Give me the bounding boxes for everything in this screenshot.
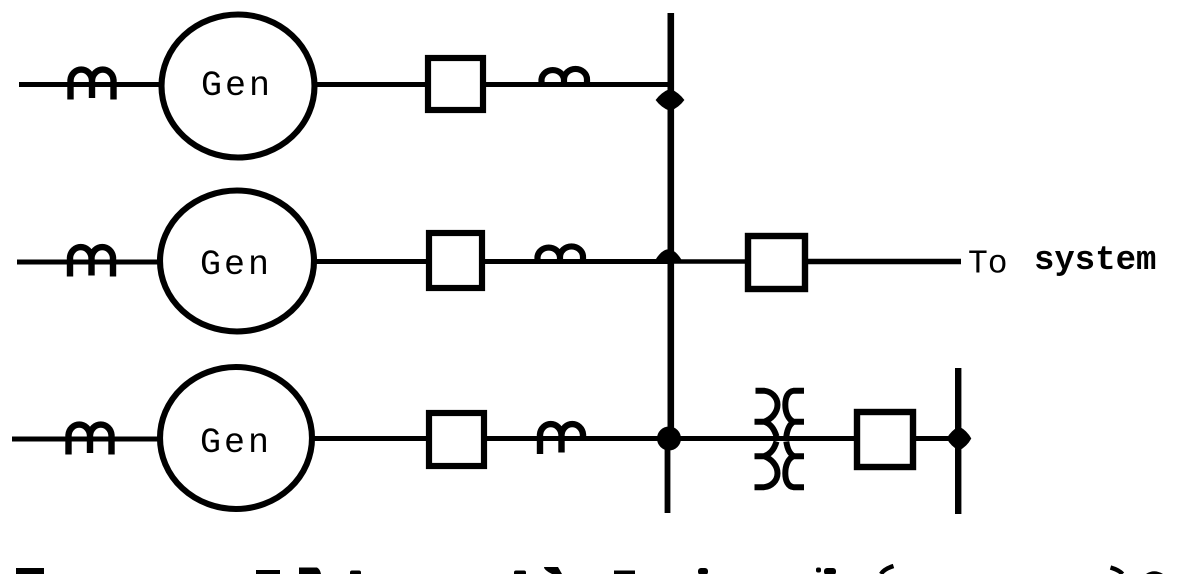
svg-text:Gen: Gen [200,423,272,463]
reactor L6 (row3 middle coil) [540,424,583,454]
breaker CB2 (row2 square) [429,233,482,288]
wire row1 breaker to bus [486,82,669,87]
wire row3 breaker to bus [487,436,669,441]
breaker CB3 (row2 right square) [748,236,805,289]
bus right vertical (short) [955,368,961,514]
caption fragment low dome [1146,571,1163,574]
wire row2 breaker to bus [485,259,669,264]
wire row3 bus to transformer [674,436,854,441]
svg-text:To: To [968,246,1008,283]
wire row3 breaker to right bus [916,436,950,441]
wire row1 left segment [19,82,163,87]
caption fragment t bump [514,571,526,574]
wire row3 left segment [12,437,162,442]
breaker CB4 (row3 square) [429,413,484,466]
wire row1 circle to breaker [315,82,425,87]
reactor L4 (row2 middle coil, arches on line) [538,246,584,261]
caption fragment i dot [816,568,821,573]
reactor L3 (row2 left coil) [70,247,113,276]
caption fragment Di top [299,568,321,574]
svg-text:system: system [1034,242,1156,280]
caption fragment close paren [1111,568,1123,574]
generator G2 circle [160,191,314,332]
caption fragment open paren [881,566,894,574]
wire row2 left segment [17,260,162,265]
reactor L2 (row1 right coil, arches on line) [542,69,588,84]
caption fragment bar [256,570,280,574]
svg-text:Gen: Gen [200,245,272,285]
caption fragment low bar [614,571,635,574]
caption fragment d top [544,567,562,574]
wire row2 circle to breaker [314,259,426,264]
caption fragment t bump [350,571,361,574]
svg-text:Gen: Gen [201,66,273,106]
caption fragment t bump [698,568,708,574]
node junction row1 on bus (diamond dot) [656,89,685,111]
node junction row3 on bus (round dot) [657,427,681,451]
transformer T1 left winding [755,391,778,487]
bus main vertical lower part [665,443,671,513]
node half-dot on bus at row2 crossing [655,249,682,260]
bus main vertical upper part [668,13,675,445]
reactor L1 (row1 left coil) [71,70,114,100]
caption fragment t bump [824,568,836,574]
caption fragment F top bar [16,568,44,574]
generator G3 circle [160,367,312,509]
transformer T1 right winding [785,391,804,487]
wire row2 to system [808,259,961,264]
wire row3 circle to breaker [312,436,426,441]
reactor L5 (row3 left coil) [69,425,112,455]
generator G1 circle [162,15,315,158]
wire row2 bus to breaker CB3 [672,259,746,264]
node junction on right bus (diamond dot) [947,427,972,451]
breaker CB5 (row3 right square) [857,412,913,467]
breaker CB1 (row1 square) [428,58,483,110]
